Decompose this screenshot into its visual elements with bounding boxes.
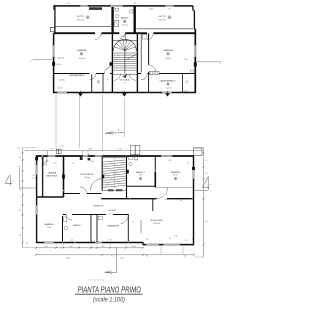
shower box bagno xyxy=(115,21,119,27)
projection line 3 xyxy=(101,95,103,151)
stair bottom landing line xyxy=(112,73,137,75)
fixture circle right band xyxy=(186,81,188,83)
door arc lavanderia xyxy=(121,215,129,224)
svg-text:1.2: 1.2 xyxy=(205,160,207,162)
svg-text:3.9: 3.9 xyxy=(19,235,21,237)
section arrow mid xyxy=(105,132,124,135)
section marker right xyxy=(202,177,208,187)
door gap right letto xyxy=(147,32,154,34)
left dim line upper block xyxy=(33,59,54,61)
window lb top a xyxy=(48,155,56,157)
lower block right wall xyxy=(193,155,195,245)
bottom band divider right-2 xyxy=(182,74,184,93)
bottom right extension lines xyxy=(160,246,162,255)
svg-text:LAVANDERIA: LAVANDERIA xyxy=(107,224,119,227)
svg-text:4.0: 4.0 xyxy=(71,239,73,241)
svg-text:14.20: 14.20 xyxy=(173,175,177,177)
svg-text:(scale 1:100): (scale 1:100) xyxy=(93,297,125,304)
window lb bottom a xyxy=(44,241,54,243)
svg-text:1.05: 1.05 xyxy=(53,163,56,165)
wall corridor lower xyxy=(101,198,194,200)
window lb bottom d xyxy=(163,244,180,246)
svg-text:1.60: 1.60 xyxy=(184,59,187,61)
chimney left above top wall xyxy=(56,149,58,154)
svg-text:4.10: 4.10 xyxy=(44,246,47,248)
svg-text:BAGNO: BAGNO xyxy=(121,17,129,20)
entrance arrow left apartment xyxy=(78,93,83,96)
wall marker lb right top xyxy=(192,167,195,170)
window lb left a xyxy=(36,165,38,176)
wall bagno / letto-right xyxy=(133,6,135,33)
right dim line upper block xyxy=(196,61,220,63)
lower block left wall xyxy=(36,155,38,242)
left wall bump xyxy=(50,27,54,31)
svg-text:BAGNO 2: BAGNO 2 xyxy=(73,224,81,227)
window lb top b1 xyxy=(83,155,89,157)
fixture bagno1 xyxy=(129,157,134,160)
door gap camera1 xyxy=(157,198,168,200)
window right wall camera xyxy=(194,45,196,57)
letto-right bottom partition xyxy=(136,28,193,30)
wall camera2 bagno2 divider xyxy=(62,216,64,243)
svg-text:2.8: 2.8 xyxy=(32,175,34,177)
svg-text:4.05: 4.05 xyxy=(50,149,53,151)
svg-text:CAMERA 1: CAMERA 1 xyxy=(171,171,181,174)
svg-text:1.9: 1.9 xyxy=(67,3,70,5)
svg-text:3.60m: 3.60m xyxy=(149,9,154,11)
window lb right a xyxy=(192,167,194,179)
fixture rect right shaft xyxy=(143,35,148,40)
door arc cabina left xyxy=(90,74,96,80)
left dim line lb xyxy=(22,148,24,248)
svg-text:6.10: 6.10 xyxy=(139,175,142,177)
wall above bottom band left xyxy=(54,73,113,75)
wall marker right xyxy=(194,63,197,67)
stairwell right wall xyxy=(136,33,138,92)
wall bagno2 right xyxy=(90,215,92,243)
wall marker lb left xyxy=(35,157,38,160)
window bottom wall right xyxy=(162,91,172,93)
wall marker mid-left xyxy=(110,62,113,65)
upper block left wall (letto) xyxy=(54,6,56,34)
svg-text:4.10: 4.10 xyxy=(120,258,123,260)
svg-text:3.85: 3.85 xyxy=(168,160,171,162)
thick wall camera-padronale right xyxy=(63,157,65,197)
svg-text:0.4: 0.4 xyxy=(32,177,34,179)
section line bottom xyxy=(116,247,118,273)
wardrobe door arc xyxy=(43,160,48,164)
svg-text:0.30: 0.30 xyxy=(174,236,177,238)
svg-text:9=4.0x: 9=4.0x xyxy=(59,57,65,59)
fixture lavanderia xyxy=(98,217,102,220)
svg-text:2.9: 2.9 xyxy=(146,256,148,258)
stair down arrow xyxy=(123,75,127,78)
svg-text:1.0: 1.0 xyxy=(187,163,189,165)
door arc left letto xyxy=(95,33,101,39)
svg-text:6.2: 6.2 xyxy=(111,255,114,257)
svg-text:VD. SCALA: VD. SCALA xyxy=(120,79,131,82)
wall lavanderia top xyxy=(97,214,128,216)
door arc camera-right xyxy=(149,65,156,72)
svg-text:8.9: 8.9 xyxy=(146,239,148,241)
svg-text:2.6: 2.6 xyxy=(205,173,207,175)
svg-text:a: a xyxy=(210,184,211,186)
svg-text:LETTO: LETTO xyxy=(158,16,166,18)
door arc cabina right xyxy=(141,74,147,80)
radiator camera-right xyxy=(149,71,159,74)
svg-text:LETTO: LETTO xyxy=(77,16,85,18)
door arc vd.scala right xyxy=(129,74,136,81)
svg-text:4.6: 4.6 xyxy=(205,221,207,223)
svg-text:4.05: 4.05 xyxy=(45,161,48,163)
bottom dim row 1 xyxy=(36,247,143,249)
svg-text:3=0.9x: 3=0.9x xyxy=(57,87,62,89)
bottom dim row 2 xyxy=(36,254,194,256)
beam line camera1 xyxy=(156,186,194,188)
wall spogliatoio bottom xyxy=(64,193,102,195)
svg-text:CAMERA 2: CAMERA 2 xyxy=(44,223,54,226)
upper block right wall (letto) xyxy=(192,6,194,11)
svg-text:min. mas. del seg.: min. mas. del seg. xyxy=(89,279,105,281)
window lb bottom b xyxy=(95,241,102,243)
shaft wall right of stairs xyxy=(140,33,142,73)
orange dots xyxy=(26,243,27,244)
stub wall soggiorno xyxy=(152,199,154,211)
fixture camera padronale xyxy=(44,157,47,165)
lower block bottom wall xyxy=(36,242,143,244)
svg-text:28.40 mq: 28.40 mq xyxy=(153,223,160,225)
upper block bottom wall xyxy=(53,92,196,94)
svg-text:3.30: 3.30 xyxy=(69,246,72,248)
svg-text:9.20 mq: 9.20 mq xyxy=(84,177,90,179)
staircase lower block xyxy=(102,157,126,199)
projection line 4 xyxy=(123,98,125,137)
upper block right wall (mid) xyxy=(193,11,195,30)
wall lavanderia left xyxy=(96,215,98,243)
svg-text:1a: 1a xyxy=(192,239,194,241)
svg-text:2.90: 2.90 xyxy=(108,239,111,241)
svg-text:9.0: 9.0 xyxy=(123,82,125,84)
door gap left letto xyxy=(95,32,102,34)
entrance arrow right apartment xyxy=(165,93,170,96)
stair lb marker boxes xyxy=(108,189,114,191)
staircase upper block xyxy=(113,39,137,73)
svg-text:PADRONALE: PADRONALE xyxy=(46,174,58,177)
window bottom wall left xyxy=(57,91,67,93)
section marker left xyxy=(5,176,9,184)
svg-text:1.50: 1.50 xyxy=(168,8,171,10)
upper block left wall (main) xyxy=(53,33,55,92)
soggiorno inner line xyxy=(140,220,142,234)
pilaster on top wall xyxy=(80,156,83,160)
svg-text:A.SP: A.SP xyxy=(121,35,126,38)
stair lb wall blobs xyxy=(102,175,105,179)
wall marker left xyxy=(52,62,55,66)
wall bagno1 bottom xyxy=(127,185,156,187)
entrance arrow stair xyxy=(122,93,127,96)
wall letto-left / bagno xyxy=(111,6,113,33)
wall lavanderia right xyxy=(127,215,129,243)
right terrace line xyxy=(194,189,209,191)
svg-text:0.9: 0.9 xyxy=(19,157,21,159)
svg-text:3.60x3.60: 3.60x3.60 xyxy=(77,20,85,22)
svg-text:CAMERA: CAMERA xyxy=(77,49,87,52)
svg-text:3.60x3.60: 3.60x3.60 xyxy=(158,20,166,22)
bagno door gap xyxy=(119,32,125,34)
window lb top b2 xyxy=(95,155,103,157)
svg-text:CAMERA: CAMERA xyxy=(163,49,173,52)
svg-text:PIANTA PIANO PRIMO: PIANTA PIANO PRIMO xyxy=(78,285,142,294)
door arc camera1 xyxy=(156,187,167,198)
stairwell left wall xyxy=(111,33,113,92)
wall above bottom band right xyxy=(137,73,195,75)
svg-text:a: a xyxy=(12,181,13,183)
svg-text:2.60: 2.60 xyxy=(101,246,104,248)
pilaster band top xyxy=(89,7,102,10)
svg-text:3.30: 3.30 xyxy=(90,161,93,163)
svg-text:SPOGLIATOIO: SPOGLIATOIO xyxy=(80,173,94,176)
svg-text:13.10: 13.10 xyxy=(66,258,70,260)
door gap camera-right xyxy=(148,65,150,72)
window top wall letto-right xyxy=(165,5,174,7)
svg-text:CORRIDOIO: CORRIDOIO xyxy=(93,205,104,207)
camera-right left wall xyxy=(148,33,150,73)
door gap cabina right xyxy=(141,73,148,75)
svg-text:1.9: 1.9 xyxy=(134,3,137,5)
right dim line lb xyxy=(203,148,205,258)
window top wall letto-left xyxy=(80,5,88,7)
radiator mark lb xyxy=(88,158,91,160)
svg-text:4.0: 4.0 xyxy=(72,163,74,165)
door gap cabina left xyxy=(90,73,97,75)
svg-text:5=1.0x: 5=1.0x xyxy=(56,64,61,66)
main internal wall xyxy=(54,32,196,34)
svg-text:CABINA ARMADIO: CABINA ARMADIO xyxy=(69,74,86,77)
svg-text:1.50: 1.50 xyxy=(17,148,20,150)
svg-text:1.05: 1.05 xyxy=(60,146,63,148)
chimney mid above top wall xyxy=(131,145,136,154)
bottom band divider left-2 xyxy=(102,74,104,93)
roof line above lower block xyxy=(25,150,202,152)
svg-text:5.90 mq: 5.90 mq xyxy=(122,25,128,27)
svg-text:CAMERA: CAMERA xyxy=(48,172,57,175)
door gap camera-left xyxy=(104,73,110,75)
wall marker lb mid xyxy=(62,175,65,179)
svg-text:2.8: 2.8 xyxy=(18,210,20,212)
door arc right letto xyxy=(147,33,153,39)
window left wall camera xyxy=(53,45,55,57)
svg-text:4x4.10a: 4x4.10a xyxy=(165,58,171,60)
svg-text:3.35: 3.35 xyxy=(132,246,135,248)
svg-text:7.8: 7.8 xyxy=(169,238,171,240)
svg-text:7.10: 7.10 xyxy=(184,240,187,242)
door gap spogliatoio xyxy=(80,193,87,195)
svg-text:12.60: 12.60 xyxy=(47,227,51,229)
svg-text:4.7: 4.7 xyxy=(184,256,186,258)
window top wall bagno xyxy=(110,5,123,7)
upper block top wall xyxy=(54,5,193,7)
wardrobe wall left xyxy=(42,157,44,197)
svg-text:CABINA ARMADIO: CABINA ARMADIO xyxy=(159,80,176,83)
thick wall camera-padronale bottom xyxy=(37,196,64,198)
projection line 1 xyxy=(55,95,57,149)
lower block top wall xyxy=(36,155,194,157)
svg-text:4=0.9x: 4=0.9x xyxy=(166,87,171,89)
upper block right wall (main) xyxy=(194,29,196,93)
svg-text:4x4.10a: 4x4.10a xyxy=(79,58,85,60)
leader diagonal xyxy=(106,65,112,71)
bottom band divider left-1 xyxy=(91,74,93,93)
wall bagno1 camera1 divider xyxy=(154,157,156,188)
chimney right corner xyxy=(194,148,203,156)
letto-left bottom partition xyxy=(55,26,111,28)
svg-text:1.4: 1.4 xyxy=(132,222,134,224)
wall corridor bottom xyxy=(63,214,98,216)
door arc stair bottom xyxy=(90,179,102,191)
window lb left b xyxy=(36,205,38,215)
orange jamb top wall xyxy=(41,155,43,159)
svg-text:4.0: 4.0 xyxy=(19,189,21,191)
door arc vd.scala left xyxy=(114,74,121,81)
svg-text:2.15: 2.15 xyxy=(118,149,121,151)
svg-text:SOGGIORNO: SOGGIORNO xyxy=(150,220,163,222)
bagno door panel xyxy=(124,33,126,40)
svg-text:3.30: 3.30 xyxy=(88,149,91,151)
svg-text:2.9: 2.9 xyxy=(135,160,137,162)
fixture bagno2 xyxy=(64,217,67,222)
left terrace line xyxy=(19,168,21,189)
svg-text:BAGNO 1: BAGNO 1 xyxy=(136,171,145,174)
door arc camera-left xyxy=(104,68,110,74)
svg-text:6x1.30a: 6x1.30a xyxy=(59,80,65,82)
fixture circle left band xyxy=(97,81,100,84)
projection line 2 xyxy=(79,95,81,148)
window lb top c xyxy=(161,155,173,157)
svg-text:3=0.9x: 3=0.9x xyxy=(182,90,187,92)
bottom band divider right-1 xyxy=(148,74,150,93)
window lb bottom c xyxy=(146,244,159,246)
upper block top-left corner step xyxy=(53,5,55,9)
fixture rect bagno xyxy=(115,8,118,11)
